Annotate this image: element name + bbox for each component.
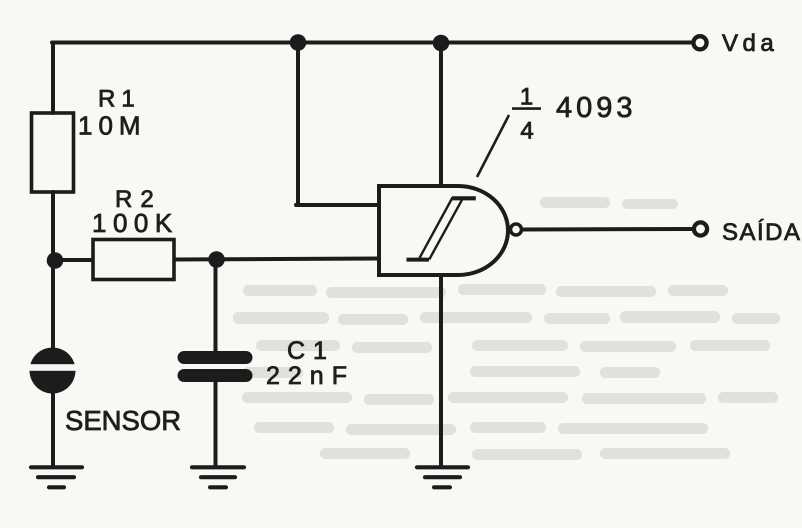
svg-text:SAÍDA: SAÍDA	[722, 219, 802, 246]
svg-text:22nF: 22nF	[266, 362, 355, 390]
node junction rail / gate input 1	[290, 34, 307, 51]
wire node B down to C1 top plate	[214, 260, 218, 354]
ground under C1	[192, 467, 244, 487]
terminal Vda	[693, 36, 706, 49]
resistor R2	[93, 240, 174, 280]
node junction rail / gate supply	[433, 35, 450, 52]
svg-text:100K: 100K	[92, 208, 179, 238]
wire R1 bottom to sensor top	[51, 192, 55, 348]
wire gate bottom to ground	[439, 275, 443, 466]
svg-text:Vda: Vda	[722, 30, 778, 57]
wire rail down to R1 top	[51, 43, 55, 114]
schmitt hysteresis symbol	[407, 198, 476, 260]
svg-text:10M: 10M	[78, 111, 147, 141]
svg-text:R1: R1	[98, 86, 141, 113]
resistor R1	[32, 113, 74, 192]
ground under gate	[417, 467, 468, 487]
terminal SAIDA	[694, 222, 707, 235]
node B junction R2 / C1 / gate input 2	[208, 251, 225, 268]
gate inversion bubble	[511, 224, 522, 235]
wire rail down to gate top (supply pin)	[439, 43, 443, 186]
wire to gate input 1 (horizontal)	[296, 203, 379, 207]
wire rail down to gate input 1 (vertical)	[296, 43, 300, 206]
wire top supply rail to Vda	[52, 41, 693, 45]
label pointer line to gate	[477, 115, 509, 177]
sensor element (disc with gap)	[27, 348, 78, 394]
wire gate output to SAIDA terminal	[523, 227, 694, 232]
svg-text:C1: C1	[287, 337, 335, 365]
wire node A to R2 left	[54, 258, 93, 262]
svg-text:SENSOR: SENSOR	[65, 405, 181, 436]
fraction bar	[512, 107, 541, 110]
svg-text:4093: 4093	[556, 92, 637, 124]
ground under sensor	[31, 467, 82, 487]
wire C1 bottom plate to ground	[214, 379, 218, 466]
wire R2 right to gate input 2	[174, 259, 379, 260]
svg-text:4: 4	[520, 118, 533, 145]
svg-text:1: 1	[520, 84, 533, 111]
NAND gate U1 (Schmitt trigger, 1/4 4093) body	[379, 186, 508, 275]
capacitor C1 plates	[178, 351, 253, 382]
node A junction R1 / R2 / sensor	[47, 252, 64, 269]
wire sensor bottom to ground	[51, 392, 55, 466]
